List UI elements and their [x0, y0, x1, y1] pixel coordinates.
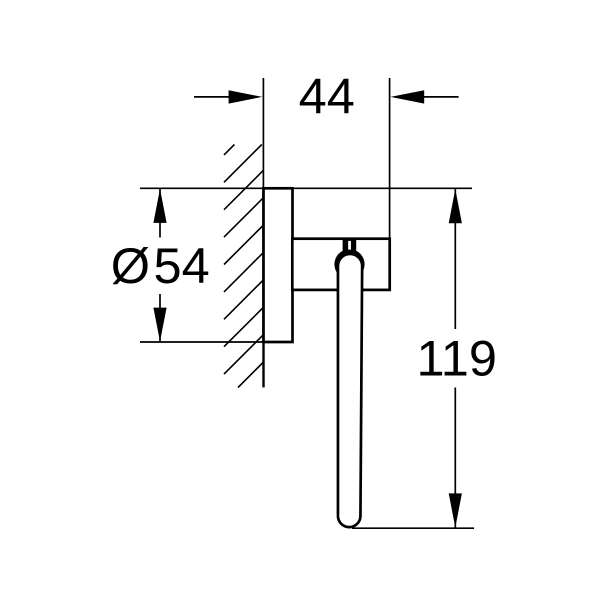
dimension label 44	[299, 68, 355, 125]
extension line 44 right	[389, 78, 391, 237]
dimension 44 line left tail	[194, 96, 231, 98]
top extension line	[140, 187, 472, 189]
dimension 119 line lower segment	[454, 388, 456, 528]
svg-text:119: 119	[416, 330, 497, 387]
pivot slot	[348, 241, 351, 250]
plate bottom extension line	[140, 341, 264, 343]
dimension 119 line upper segment	[454, 189, 456, 329]
dimension label 54	[154, 237, 210, 294]
dimension Ø54 top arrow	[153, 189, 166, 223]
wall face line	[262, 78, 264, 387]
pivot post	[343, 238, 357, 256]
dimension Ø54 line upper segment	[159, 189, 161, 238]
dimension 44 right arrow	[391, 90, 425, 103]
mounting bracket	[292, 239, 389, 290]
svg-text:44: 44	[299, 68, 355, 125]
dimension label diameter symbol	[111, 237, 150, 294]
svg-text:Ø: Ø	[111, 237, 150, 294]
wall plate (side view)	[264, 188, 293, 342]
roller hub disc	[334, 249, 364, 279]
holder bar	[338, 254, 362, 527]
dimension 119 top arrow	[449, 189, 462, 223]
dimension Ø54 bottom arrow	[153, 308, 166, 342]
dimension 119 bottom arrow	[449, 493, 462, 527]
dimension 44 line right tail	[422, 96, 459, 98]
svg-text:54: 54	[154, 237, 210, 294]
dimension Ø54 line lower segment	[159, 294, 161, 342]
wall hatching	[224, 145, 264, 388]
bottom extension line	[352, 527, 474, 529]
dimension label 119	[416, 330, 497, 387]
dimension 44 left arrow	[229, 90, 263, 103]
